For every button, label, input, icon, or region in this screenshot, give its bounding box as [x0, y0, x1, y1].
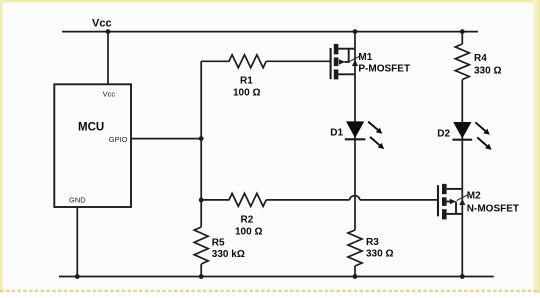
svg-text:Vcc: Vcc	[92, 18, 112, 30]
svg-text:GND: GND	[69, 196, 86, 205]
wire Vcc rail to MCU Vcc pin	[107, 32, 109, 85]
svg-text:R1: R1	[240, 76, 253, 87]
wire crossover hop over D1/R3 branch	[350, 196, 360, 200]
M1 body loop wire	[345, 49, 349, 62]
D2 emission arrow 2	[477, 137, 487, 146]
MCU U1 box	[54, 84, 131, 207]
wire MCU GND pin to ground rail	[76, 207, 78, 277]
resistor R3	[348, 230, 362, 266]
junction dot Vcc/M1	[353, 29, 358, 34]
LED D1 triangle	[346, 121, 364, 138]
junction dot R2/R5 node	[199, 198, 204, 203]
resistor R1	[201, 55, 266, 68]
junction dot GPIO node	[199, 136, 204, 141]
M1 body lead arrow	[339, 59, 345, 64]
transistor M1 P-MOSFET gate plate	[330, 48, 332, 79]
M1 leader slash	[350, 56, 361, 62]
Vcc rail wire	[62, 31, 478, 33]
svg-text:Vcc: Vcc	[103, 90, 116, 99]
resistor R5	[194, 227, 208, 264]
M2 channel bar middle	[442, 197, 447, 206]
svg-text:100 Ω: 100 Ω	[235, 226, 262, 237]
wire R1 to M1 gate	[266, 60, 330, 62]
junction dot MCU GND/ground rail	[75, 274, 80, 279]
wire D2 through M2 to ground	[461, 140, 463, 277]
svg-text:330 kΩ: 330 kΩ	[212, 249, 245, 260]
svg-text:100 Ω: 100 Ω	[233, 87, 260, 98]
M1 drain lead (top)	[338, 48, 355, 50]
D2 cathode bar	[452, 139, 472, 141]
wire Vcc rail through M1 to D1	[354, 32, 356, 140]
M1 source lead (bottom)	[338, 73, 355, 75]
M2 body lead arrow	[450, 199, 456, 204]
svg-text:MCU: MCU	[78, 122, 104, 134]
svg-text:R2: R2	[241, 215, 254, 226]
resistor R2	[201, 193, 266, 206]
wire R5 to ground	[200, 264, 202, 277]
wire Vcc rail to R4	[461, 32, 463, 44]
svg-text:D2: D2	[437, 129, 450, 140]
D1 cathode bar	[345, 138, 366, 140]
wire D1 to R3	[354, 139, 356, 230]
D1 emission arrow 2	[370, 137, 380, 145]
transistor M2 N-MOSFET gate plate	[437, 185, 439, 216]
svg-text:330 Ω: 330 Ω	[474, 66, 501, 77]
svg-text:R5: R5	[212, 238, 225, 249]
wire gate bus vertical (R1/R2/R5 node)	[200, 61, 202, 227]
junction dot Vcc/R4	[460, 29, 465, 34]
junction dot R5/ground	[199, 274, 204, 279]
svg-text:M1: M1	[358, 52, 372, 63]
D2 emission arrow 1	[475, 122, 485, 131]
svg-text:N-MOSFET: N-MOSFET	[467, 203, 519, 214]
M2 body diode mark	[459, 199, 465, 205]
wire R3 to ground	[354, 266, 356, 277]
M2 source lead (bottom)	[447, 213, 463, 215]
junction dot M2 source/ground	[460, 274, 465, 279]
M2 drain lead (top)	[447, 188, 463, 190]
svg-text:D1: D1	[330, 128, 343, 139]
M2 body lead wire	[447, 201, 452, 203]
M1 channel bar bottom	[334, 69, 339, 79]
M1 channel bar middle	[334, 57, 339, 66]
D1 emission arrow 1	[368, 122, 378, 130]
M2 leader slash	[457, 195, 468, 201]
wire R4 to D2	[461, 80, 463, 140]
wire GPIO from MCU to gate bus	[131, 138, 201, 140]
M2 channel bar top	[442, 184, 447, 194]
svg-text:GPIO: GPIO	[109, 135, 128, 144]
LED D2 triangle	[453, 122, 471, 139]
M2 body loop wire	[455, 202, 457, 214]
svg-text:R4: R4	[474, 53, 487, 64]
M1 channel bar top	[334, 44, 339, 55]
svg-text:330 Ω: 330 Ω	[366, 249, 393, 260]
wire crossover to M2 gate	[360, 199, 438, 201]
M1 body diode mark	[352, 60, 358, 66]
resistor R4	[455, 44, 469, 80]
ground rail wire	[59, 276, 494, 278]
svg-text:R3: R3	[366, 237, 379, 248]
wire R2 to crossover	[266, 199, 350, 201]
svg-text:P-MOSFET: P-MOSFET	[358, 63, 410, 74]
svg-text:M2: M2	[467, 191, 481, 202]
junction dot R3/ground	[353, 274, 358, 279]
junction dot Vcc/MCU	[106, 29, 111, 34]
M2 channel bar bottom	[442, 209, 447, 219]
